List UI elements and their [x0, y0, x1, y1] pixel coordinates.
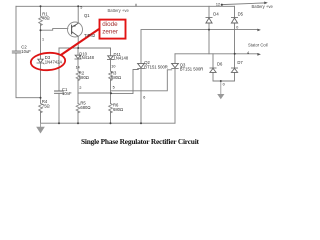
resistor R1	[39, 16, 43, 26]
stator rail 1 arrowhead	[257, 29, 261, 32]
red callout line	[61, 29, 100, 55]
wire C1 column lower	[58, 93, 60, 123]
wire Q2 anode and stator rail 1	[141, 30, 258, 64]
resistor R2	[76, 71, 80, 81]
ground symbol left	[40, 123, 42, 128]
wire Q1 collector down	[77, 36, 79, 48]
wire R5 stubs	[77, 93, 79, 123]
svg-text:6: 6	[143, 96, 145, 100]
capacitor C1	[55, 91, 64, 93]
wire Q2 cathode	[140, 68, 142, 123]
svg-text:Battery +ve: Battery +ve	[108, 8, 130, 13]
diode D10	[75, 55, 81, 59]
red callout box	[100, 20, 126, 39]
svg-text:Q1: Q1	[84, 13, 90, 18]
svg-text:Stator Coil: Stator Coil	[248, 42, 268, 47]
capacitor C2	[12, 51, 20, 53]
wire top rail node 12	[16, 5, 235, 7]
svg-text:10nF: 10nF	[62, 91, 72, 96]
transistor Q1 circle	[68, 22, 83, 37]
wire node 10 segment	[110, 60, 112, 72]
wire C1 column upper	[58, 48, 60, 91]
wire D3 to R4	[40, 63, 42, 103]
wire bottom ground rail	[41, 122, 176, 124]
resistor R3	[109, 71, 113, 81]
resistor R4	[39, 103, 43, 113]
wire D7 column	[221, 54, 235, 81]
diode D7	[231, 68, 237, 72]
svg-text:5: 5	[113, 85, 115, 89]
wire node 1 segment	[40, 24, 42, 59]
wire left border column	[16, 6, 41, 97]
thyristor Q2	[138, 63, 145, 68]
svg-text:1: 1	[42, 37, 44, 41]
wire battery branch	[222, 3, 266, 5]
diode D6	[210, 68, 216, 72]
svg-text:D6: D6	[217, 62, 223, 67]
svg-text:10: 10	[111, 65, 115, 69]
wire R4 to bottom rail	[40, 111, 42, 123]
tick on top rail	[135, 4, 137, 7]
wire R6 stubs	[110, 93, 112, 123]
svg-text:1N4148: 1N4148	[114, 55, 129, 60]
wire Q1 base	[41, 29, 68, 31]
svg-text:D5: D5	[238, 12, 244, 17]
svg-text:1N4742A: 1N4742A	[45, 60, 63, 65]
wire rail node2 to node5	[78, 92, 111, 94]
svg-text:0: 0	[236, 25, 238, 29]
svg-text:D7: D7	[237, 60, 243, 65]
svg-text:680Ω: 680Ω	[111, 75, 121, 80]
resistor R5	[76, 103, 80, 113]
wire Q3 anode	[174, 54, 176, 64]
svg-text:BT151 500R: BT151 500R	[144, 65, 168, 70]
svg-text:zener: zener	[102, 29, 118, 36]
wire node 5 segment	[110, 79, 112, 93]
wire Q3 cathode	[174, 68, 176, 123]
svg-text:D4: D4	[213, 12, 219, 17]
svg-text:1N4148: 1N4148	[79, 55, 94, 60]
svg-text:Single Phase Regulator Rectifi: Single Phase Regulator Rectifier Circuit	[81, 137, 200, 146]
svg-text:680Ω: 680Ω	[113, 107, 123, 112]
wire gate rail to Q2	[111, 70, 139, 94]
ground arrowhead left	[36, 127, 45, 134]
thyristor Q3	[172, 63, 179, 68]
battery wire arrowhead	[264, 2, 268, 5]
svg-text:12: 12	[216, 2, 220, 6]
svg-text:Battery +ve: Battery +ve	[252, 4, 274, 9]
ground arrowhead right	[217, 94, 224, 99]
svg-text:4: 4	[247, 51, 249, 55]
wire node 14 segment	[77, 59, 79, 71]
wire D10 column top	[77, 48, 79, 55]
svg-text:680Ω: 680Ω	[80, 105, 90, 110]
resistor R6	[109, 103, 113, 113]
svg-text:2: 2	[79, 86, 81, 90]
wire D5 column	[234, 6, 236, 54]
wire D11 column top corner	[110, 48, 112, 56]
zener diode D3	[37, 59, 44, 64]
stator rail 2 arrowhead	[257, 53, 261, 56]
wire middle bus	[59, 47, 111, 49]
diode D11	[107, 56, 113, 60]
wire Q1 emitter up node 5	[77, 6, 79, 23]
wire stator rail 2 node 4	[175, 53, 258, 55]
wire node 2 segment	[77, 79, 79, 93]
diode D5	[231, 18, 237, 23]
wire R1 column	[40, 6, 42, 16]
wire ground stem right	[220, 81, 222, 94]
transistor Q1 emitter arrow	[73, 25, 76, 27]
wire D4 column	[208, 6, 210, 54]
svg-text:TIP42: TIP42	[84, 33, 96, 38]
svg-text:0: 0	[223, 82, 225, 86]
svg-text:diode: diode	[102, 21, 118, 28]
svg-text:680Ω: 680Ω	[79, 75, 89, 80]
diode D4	[206, 18, 212, 23]
red highlight ellipse around D3	[30, 52, 66, 72]
svg-text:48Ω: 48Ω	[42, 15, 50, 20]
svg-text:10uF: 10uF	[21, 49, 31, 54]
svg-text:BT151 500R: BT151 500R	[180, 67, 204, 72]
wire D6 column	[213, 54, 221, 81]
svg-text:14: 14	[76, 65, 80, 69]
transistor Q1 internals	[72, 23, 79, 36]
svg-text:75Ω: 75Ω	[42, 104, 50, 109]
wire gate rail to Q3	[111, 70, 172, 91]
svg-text:5: 5	[80, 6, 82, 10]
